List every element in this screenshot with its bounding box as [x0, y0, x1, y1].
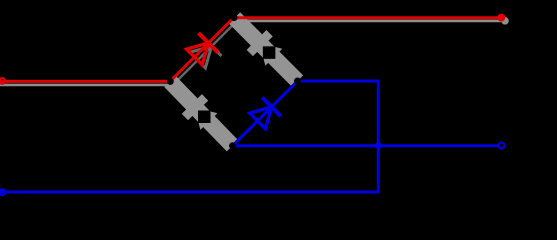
- diode D3 (gray, non-conducting) from bottom node to left node: [170, 81, 233, 145]
- wire: gray base line under left red wire: [0, 84, 174, 87]
- node: left bridge node: [167, 78, 174, 85]
- node: top bridge node: [231, 14, 238, 21]
- wire: red AC input (left): [0, 80, 170, 83]
- junction: blue dot where vertical crosses blue output: [375, 142, 382, 149]
- terminal: red input ring at left edge: [0, 78, 5, 84]
- terminal: blue return ring at left edge: [0, 189, 5, 195]
- terminal: red output dot: [497, 14, 505, 22]
- wire: blue return path (right node, right then down then left): [0, 81, 378, 192]
- diode D1 gray base shadow (offset under red diode): [173, 21, 237, 85]
- wire: blue output (middle): [233, 144, 498, 147]
- wire: red output (top): [234, 16, 498, 19]
- node: right bridge node: [294, 78, 301, 85]
- wire: gray base line under top red wire: [237, 20, 505, 23]
- node: gray base terminal dot behind red output dot: [501, 17, 509, 25]
- node: gray base junction dot under top node: [234, 17, 241, 24]
- terminal: blue output ring: [499, 143, 505, 149]
- node: gray base junction dot under left node: [170, 81, 177, 88]
- diode D2 (gray, non-conducting) from right node to top node: [235, 18, 298, 81]
- diode D1 (red, conducting) from left node to top node: [170, 17, 234, 81]
- diode D4 (blue, conducting) from bottom node to right node: [233, 81, 298, 146]
- node: bottom bridge node: [229, 142, 236, 149]
